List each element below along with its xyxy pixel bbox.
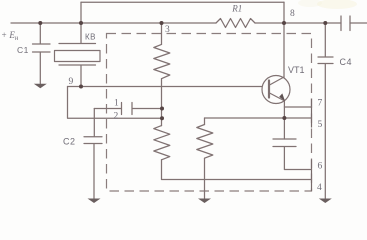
svg-text:1: 1 bbox=[114, 99, 119, 109]
svg-text:КВ: КВ bbox=[85, 33, 96, 42]
svg-text:5: 5 bbox=[318, 120, 323, 130]
svg-text:C1: C1 bbox=[17, 45, 29, 55]
svg-text:2: 2 bbox=[114, 112, 119, 122]
svg-text:9: 9 bbox=[69, 77, 74, 87]
svg-text:7: 7 bbox=[318, 99, 323, 109]
svg-text:8: 8 bbox=[290, 9, 295, 19]
svg-text:VT1: VT1 bbox=[288, 65, 305, 75]
svg-text:3: 3 bbox=[165, 25, 170, 35]
svg-text:C2: C2 bbox=[63, 137, 76, 147]
svg-text:6: 6 bbox=[318, 162, 323, 172]
svg-text:R1: R1 bbox=[231, 3, 242, 13]
svg-text:4: 4 bbox=[317, 183, 322, 193]
svg-text:C4: C4 bbox=[340, 57, 353, 67]
